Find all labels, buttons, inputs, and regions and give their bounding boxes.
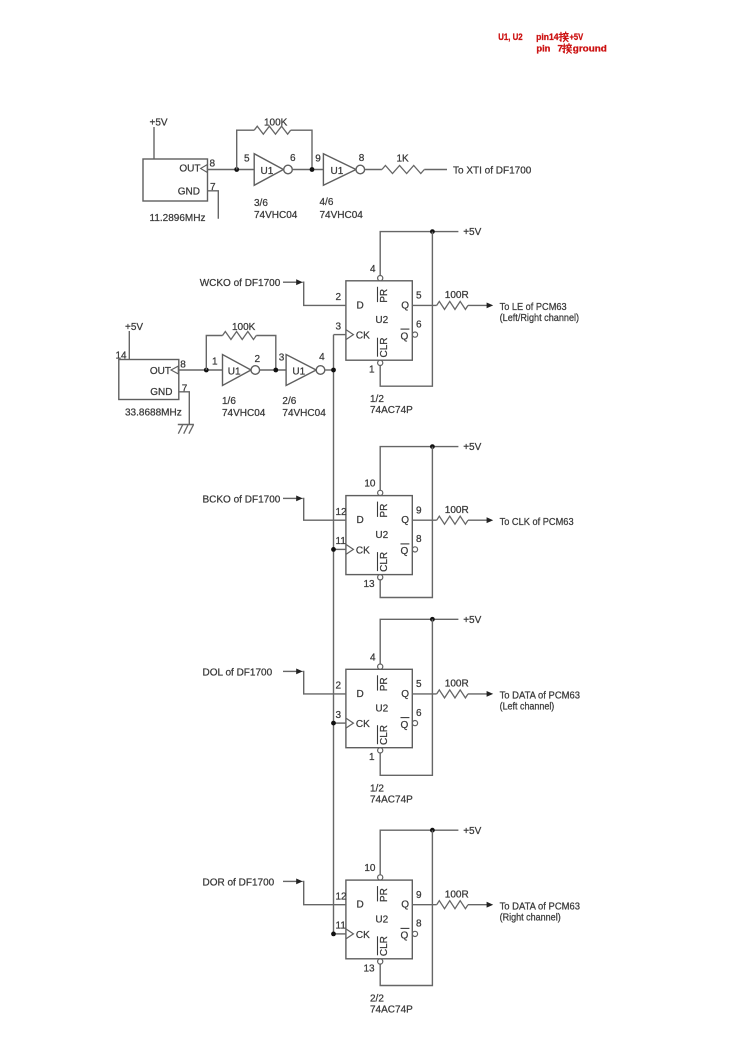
svg-text:U1: U1 [228,367,241,378]
svg-text:WCKO of DF1700: WCKO of DF1700 [200,278,281,289]
node input DOL of DF1700 [203,667,303,678]
svg-text:PR: PR [379,677,390,691]
svg-text:+5V: +5V [463,615,481,626]
+5V power rail (U2 flip-flop B (BCKO)) [380,442,481,490]
svg-text:9: 9 [416,890,422,901]
svg-text:GND: GND [150,387,172,398]
svg-text:To DATA of PCM63: To DATA of PCM63 [500,901,581,912]
svg-text:U1: U1 [331,166,344,177]
+5V power symbol (oscillator X1) [150,118,168,160]
resistor 100R (U2 flip-flop D (DOR)) [437,890,469,909]
svg-text:pin14: pin14 [536,32,559,43]
svg-text:U1: U1 [292,367,305,378]
wire clock bus to CK (U2 flip-flop A (WCKO)) [334,334,346,336]
svg-text:33.8688MHz: 33.8688MHz [125,408,182,419]
wire clock bus to CK (U2 flip-flop C (DOL)) [334,722,346,724]
ground [178,425,194,434]
svg-text:U1: U1 [261,166,274,177]
svg-text:10: 10 [364,863,376,874]
resistor 100K (X2 feedback) [206,322,275,370]
U2 flip-flop A (WCKO) 74AC74P [346,276,418,366]
svg-text:11: 11 [336,536,347,547]
node output To LE of PCM63 (Left/Right channel) [500,302,579,324]
wire X2 OUT to inverter 1/6 input [179,369,223,371]
wire 1K to XTI net [424,169,447,171]
svg-text:Q: Q [401,931,409,942]
svg-text:6: 6 [416,319,422,330]
svg-text:1K: 1K [397,153,410,164]
+5V power symbol (oscillator X2) [125,322,143,360]
wire inverter 1/6 out to 2/6 in [259,369,286,371]
svg-text:1/2: 1/2 [370,783,384,794]
wire +5V drop to CLR (U2 flip-flop A (WCKO)) [380,232,432,387]
node junction clock tap (U2 flip-flop C (DOL)) [331,721,336,726]
svg-text:1/2: 1/2 [370,394,384,405]
svg-text:5: 5 [416,679,422,690]
svg-text:3: 3 [336,321,342,332]
svg-text:2/2: 2/2 [370,994,384,1005]
svg-text:3: 3 [336,710,342,721]
wire 100R to output net (U2 flip-flop B (BCKO)) [468,519,487,521]
svg-text:To DATA of PCM63: To DATA of PCM63 [500,691,581,702]
svg-text:+5V: +5V [463,826,481,837]
oscillator X1 11.2896MHz [143,159,208,224]
svg-text:74VHC04: 74VHC04 [320,210,364,221]
node junction clock tap (U2 flip-flop D (DOR)) [331,932,336,937]
svg-text:+5V: +5V [570,32,584,43]
svg-text:4: 4 [370,652,376,663]
wire input to D (U2 flip-flop D (DOR)) [303,881,346,904]
svg-text:DOR of DF1700: DOR of DF1700 [203,877,275,888]
svg-text:(Left channel): (Left channel) [500,702,555,713]
svg-text:100R: 100R [445,679,469,690]
svg-text:Q: Q [401,515,409,526]
wire input to D (U2 flip-flop C (DOL)) [303,671,346,694]
svg-text:CLR: CLR [379,552,390,572]
svg-text:8: 8 [416,919,422,930]
svg-text:8: 8 [359,153,365,164]
svg-text:2: 2 [336,292,342,303]
wire inverter 4/6 out to resistor 1K [365,169,382,171]
wire clock bus to CK (U2 flip-flop B (BCKO)) [334,548,346,550]
svg-text:pin: pin [536,43,550,54]
node input BCKO of DF1700 [203,494,303,505]
node junction +5V rail (U2 flip-flop C (DOL)) [430,617,435,622]
svg-text:+5V: +5V [463,442,481,453]
svg-text:1: 1 [369,752,375,763]
svg-text:Q: Q [401,689,409,700]
+5V power rail (U2 flip-flop D (DOR)) [380,826,481,875]
svg-text:(Left/Right channel): (Left/Right channel) [500,313,579,324]
wire clock bus to CK (U2 flip-flop D (DOR)) [334,933,346,935]
wire inverter 2/6 out to clock bus [325,369,334,371]
svg-text:6: 6 [416,708,422,719]
wire input to D (U2 flip-flop A (WCKO)) [303,282,346,305]
wire 100R to output net (U2 flip-flop A (WCKO)) [468,304,487,306]
svg-text:74AC74P: 74AC74P [370,405,413,416]
svg-text:(Right channel): (Right channel) [500,913,561,924]
svg-text:PR: PR [379,504,390,518]
svg-text:CLR: CLR [379,337,390,357]
svg-text:U2: U2 [375,530,388,541]
svg-text:12: 12 [336,507,348,518]
svg-text:+5V: +5V [150,118,168,129]
svg-text:D: D [357,689,364,700]
svg-text:4: 4 [370,264,376,275]
svg-text:100R: 100R [445,505,469,516]
svg-text:2: 2 [336,681,342,692]
svg-text:GND: GND [178,186,200,197]
svg-text:100K: 100K [264,118,288,129]
svg-text:Q: Q [401,546,409,557]
svg-text:CLR: CLR [379,725,390,745]
svg-text:12: 12 [336,892,348,903]
svg-text:8: 8 [180,360,186,371]
node junction clock source [331,368,336,373]
svg-text:74VHC04: 74VHC04 [282,408,326,419]
svg-text:13: 13 [363,963,375,974]
svg-text:9: 9 [416,506,422,517]
svg-text:4/6: 4/6 [320,197,334,208]
svg-text:8: 8 [416,534,422,545]
svg-text:D: D [357,900,364,911]
wire Q output (U2 flip-flop B (BCKO)) [412,519,436,521]
svg-text:To XTI of DF1700: To XTI of DF1700 [453,165,532,176]
U2 flip-flop B (BCKO) 74AC74P [346,490,418,580]
op-amp U1 inverter 1/6 74VHC04 [222,355,266,420]
svg-text:74VHC04: 74VHC04 [222,408,266,419]
wire X1 OUT to inverter 3/6 input [208,169,255,171]
svg-text:11.2896MHz: 11.2896MHz [150,213,206,224]
annotation U1,U2 pin14 +5V (red) [498,32,584,43]
svg-text:1: 1 [369,365,375,376]
svg-text:CK: CK [356,331,370,342]
svg-text:CLR: CLR [379,936,390,956]
wire Q output (U2 flip-flop C (DOL)) [412,693,436,695]
svg-text:PR: PR [379,888,390,902]
wire inverter 3/6 out to 4/6 in [292,169,323,171]
annotation pin 7 ground (red) [536,43,607,54]
wire Q output (U2 flip-flop A (WCKO)) [412,304,436,306]
svg-text:6: 6 [290,153,296,164]
svg-text:5: 5 [416,291,422,302]
svg-text:CK: CK [356,930,370,941]
svg-text:Q: Q [401,720,409,731]
svg-text:9: 9 [315,153,321,164]
resistor 100R (U2 flip-flop C (DOL)) [437,679,469,698]
svg-text:5: 5 [244,153,250,164]
value label 1/2 74AC74P [370,783,413,805]
svg-text:4: 4 [319,352,325,363]
node junction +5V rail (U2 flip-flop A (WCKO)) [430,229,435,234]
svg-text:OUT: OUT [150,366,171,377]
svg-text:U2: U2 [375,914,388,925]
svg-text:U1, U2: U1, U2 [498,32,523,43]
wire 100R to output net (U2 flip-flop C (DOL)) [468,693,487,695]
node junction feedback2 [273,368,278,373]
svg-text:DOL of DF1700: DOL of DF1700 [203,667,273,678]
svg-text:+5V: +5V [463,227,481,238]
wire +5V drop to CLR (U2 flip-flop D (DOR)) [380,830,432,985]
node output To DATA of PCM63 (Right channel) [500,901,581,923]
node input WCKO of DF1700 [200,278,303,289]
wire 100R to output net (U2 flip-flop D (DOR)) [468,904,487,906]
svg-text:ground: ground [573,43,607,54]
svg-text:74AC74P: 74AC74P [370,794,413,805]
svg-text:3: 3 [279,353,285,364]
svg-text:U2: U2 [375,704,388,715]
svg-text:100R: 100R [445,890,469,901]
svg-text:CK: CK [356,545,370,556]
svg-text:+5V: +5V [125,322,143,333]
svg-text:D: D [357,300,364,311]
+5V power rail (U2 flip-flop C (DOL)) [380,615,481,664]
wire X1 GND stub [208,191,219,219]
value label 1/2 74AC74P [370,394,413,416]
svg-text:74VHC04: 74VHC04 [254,210,298,221]
svg-text:1/6: 1/6 [222,396,236,407]
svg-text:2: 2 [255,354,261,365]
node junction clock tap (U2 flip-flop B (BCKO)) [331,547,336,552]
node junction at X1 output [234,167,239,172]
resistor 100R (U2 flip-flop B (BCKO)) [437,505,469,524]
resistor 1K [382,153,424,173]
svg-text:13: 13 [363,579,375,590]
svg-text:100R: 100R [445,290,469,301]
svg-text:BCKO of DF1700: BCKO of DF1700 [203,494,281,505]
svg-text:D: D [357,515,364,526]
svg-text:To CLK of PCM63: To CLK of PCM63 [500,517,574,528]
resistor 100K (X1 feedback) [237,118,312,170]
svg-text:U2: U2 [375,315,388,326]
svg-text:74AC74P: 74AC74P [370,1005,413,1016]
svg-text:100K: 100K [232,322,256,333]
wire Q output (U2 flip-flop D (DOR)) [412,904,436,906]
svg-text:2/6: 2/6 [282,396,296,407]
svg-text:11: 11 [336,921,347,932]
wire +5V drop to CLR (U2 flip-flop B (BCKO)) [380,447,432,598]
svg-text:PR: PR [379,289,390,303]
node output To CLK of PCM63 [500,517,574,528]
svg-text:7: 7 [182,383,188,394]
svg-text:3/6: 3/6 [254,198,268,209]
node junction at X2 output [204,368,209,373]
svg-text:To LE of PCM63: To LE of PCM63 [500,302,567,313]
wire X2 GND to ground [179,392,190,425]
resistor 100R (U2 flip-flop A (WCKO)) [437,290,469,309]
node junction +5V rail (U2 flip-flop B (BCKO)) [430,444,435,449]
svg-text:OUT: OUT [179,164,200,175]
wire +5V drop to CLR (U2 flip-flop C (DOL)) [380,619,432,775]
value label 2/2 74AC74P [370,994,413,1016]
node junction feedback/inverter2 [310,167,315,172]
op-amp U1 inverter 3/6 74VHC04 [254,154,298,221]
+5V power rail (U2 flip-flop A (WCKO)) [380,227,481,276]
svg-text:10: 10 [364,479,376,490]
op-amp U1 inverter 2/6 74VHC04 [282,355,326,420]
svg-text:1: 1 [212,357,218,368]
node input DOR of DF1700 [203,877,303,888]
U2 flip-flop D (DOR) 74AC74P [346,875,418,964]
svg-text:Q: Q [401,300,409,311]
wire clock bus vertical [333,335,335,934]
U2 flip-flop C (DOL) 74AC74P [346,664,418,753]
svg-text:Q: Q [401,900,409,911]
node output To DATA of PCM63 (Left channel) [500,691,581,713]
svg-text:Q: Q [401,331,409,342]
svg-text:8: 8 [210,159,216,170]
op-amp U1 inverter 4/6 74VHC04 [320,154,365,221]
node junction +5V rail (U2 flip-flop D (DOR)) [430,828,435,833]
wire input to D (U2 flip-flop B (BCKO)) [303,498,346,520]
svg-text:CK: CK [356,719,370,730]
oscillator X2 33.8688MHz [119,360,182,419]
